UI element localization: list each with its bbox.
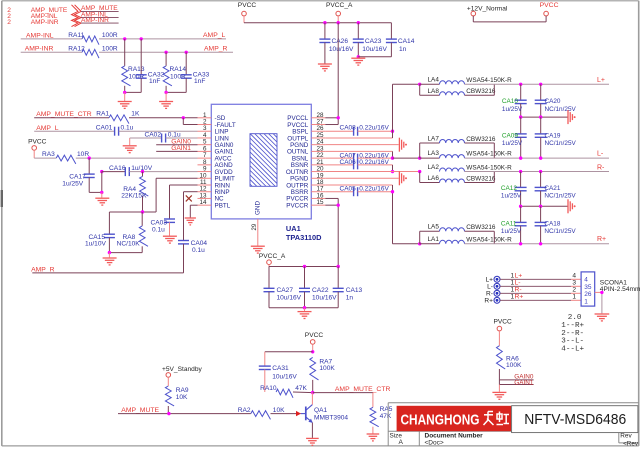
node xyxy=(539,83,542,86)
svg-text:47K: 47K xyxy=(380,413,392,420)
svg-text:GAIN1: GAIN1 xyxy=(514,379,534,386)
svg-text:1nF: 1nF xyxy=(194,78,205,85)
inductor LA3 WSA54-150K-R xyxy=(428,150,513,158)
svg-text:10u/16V: 10u/16V xyxy=(312,295,337,302)
svg-text:0.1u: 0.1u xyxy=(152,226,165,233)
svg-text:0.1u: 0.1u xyxy=(121,125,134,132)
wire PVCC rail xyxy=(244,22,391,24)
capacitor CA19 NC/1n/25V xyxy=(535,117,577,158)
wire LA5 right tie down xyxy=(465,231,495,244)
power port PVCC (top right) xyxy=(540,2,559,16)
ground (SCONA1) xyxy=(595,314,610,321)
wire PBTL pin14 to gnd xyxy=(190,205,197,217)
node xyxy=(519,170,522,173)
svg-text:WSA54-150K-R: WSA54-150K-R xyxy=(466,236,512,243)
svg-text:CA12: CA12 xyxy=(501,185,517,192)
wire L- to coils xyxy=(393,157,420,159)
svg-text:10R: 10R xyxy=(77,151,89,158)
svg-text:NC/1n/25V: NC/1n/25V xyxy=(545,106,577,113)
wire PLIMIT pin10 xyxy=(109,178,197,212)
svg-text:2: 2 xyxy=(572,287,576,294)
capacitor CA15 1u/10V xyxy=(85,212,115,253)
svg-text:4: 4 xyxy=(572,273,576,280)
ground (RA5) xyxy=(367,434,380,441)
capacitor CA01 0.1u xyxy=(96,125,134,136)
svg-text:CBW3216: CBW3216 xyxy=(466,88,496,95)
wire LA4/LA8 left tie xyxy=(420,84,440,95)
wire RINN pin11 xyxy=(170,185,198,219)
svg-text:CBW3216: CBW3216 xyxy=(466,136,496,143)
wire GAIN0 stub pin5 xyxy=(156,144,197,146)
node BSPL/OUTPL xyxy=(391,130,394,133)
node xyxy=(539,156,542,159)
wire CA16 to GVDD pin9 xyxy=(129,171,197,173)
node xyxy=(519,205,522,208)
capacitor CA31 10u/16V xyxy=(259,352,313,392)
ground (PGND pin19, sideways) xyxy=(399,171,403,185)
svg-text:4--L+: 4--L+ xyxy=(561,345,584,353)
svg-text:CA04: CA04 xyxy=(191,240,208,247)
capacitor CA23 10u/16V xyxy=(353,23,388,57)
svg-text:26: 26 xyxy=(584,291,592,298)
svg-text:NC/1n/25V: NC/1n/25V xyxy=(545,140,577,147)
ground (PBTL) xyxy=(185,218,196,225)
svg-text:UA1: UA1 xyxy=(286,224,301,233)
svg-text:10u/16V: 10u/16V xyxy=(362,46,387,53)
inductor LA6 CBW3216 xyxy=(428,175,496,183)
svg-text:LA1: LA1 xyxy=(428,236,440,243)
capacitor CA10 1u/25V xyxy=(502,84,527,117)
resistor RA2 10K xyxy=(238,407,285,419)
wires to SCONA1 with pin 1 labels xyxy=(500,273,581,301)
svg-text:10u/16V: 10u/16V xyxy=(277,295,302,302)
pinout note text xyxy=(561,314,584,353)
wire LA5/LA1 left tie xyxy=(420,231,440,244)
svg-text:1n: 1n xyxy=(399,46,407,53)
capacitor CA16 1u/10V xyxy=(102,165,153,176)
ground (CA17/CA16) xyxy=(95,192,109,205)
capacitor CA04 0.1u xyxy=(178,240,207,273)
UA1 GND text (rotated) xyxy=(255,201,262,215)
svg-text:1u/25V: 1u/25V xyxy=(502,106,523,113)
wire R filter gnd rail xyxy=(521,205,568,207)
sheet reference list: 2 AMP_MUTE / 2 AMP-INL / 2 AMP-INR xyxy=(7,7,68,26)
node R+ junction xyxy=(418,242,421,245)
wire OUTNR pin20 (R-) xyxy=(325,171,419,173)
node: CA32 tap on AMP-INL xyxy=(140,37,143,40)
connector SCONA1 body xyxy=(581,272,595,306)
node gnd junction xyxy=(100,191,103,194)
svg-text:47K: 47K xyxy=(295,385,307,392)
wire AMP-INR xyxy=(21,46,233,53)
wire CA01 to LINP pin3 xyxy=(119,130,198,132)
resistor RA4 22K/15K xyxy=(121,172,148,212)
connector outer pin numbers 4/3/2/1 xyxy=(572,273,576,301)
wire QA1 emitter to gnd xyxy=(311,423,313,438)
wire OUTPL vertical riser xyxy=(393,84,420,138)
node -SD/-FAULT tie xyxy=(182,116,185,119)
svg-text:1u/25V: 1u/25V xyxy=(62,180,84,187)
wire CA17 bottom to gnd node xyxy=(89,191,102,193)
title block Document Number cell xyxy=(425,433,484,447)
wire GVDD branch down xyxy=(101,172,103,193)
wire AMP_MUTE_CTR to RA5 xyxy=(313,393,373,408)
UA1 pin names (right) xyxy=(286,115,309,209)
node: RA13 tap on AMP-INL xyxy=(123,37,126,40)
svg-text:100K: 100K xyxy=(319,365,335,372)
svg-text:L+: L+ xyxy=(485,277,493,284)
svg-text:NFTV-MSD6486: NFTV-MSD6486 xyxy=(524,412,626,428)
power port PVCC (top) xyxy=(238,2,257,23)
capacitor CA09 1u/25V xyxy=(502,117,527,158)
svg-text:NC/10K: NC/10K xyxy=(117,241,141,248)
port AMP-INR xyxy=(81,17,119,24)
transistor QA1 MMBT3904 xyxy=(296,405,348,423)
capacitor CA33 1nF xyxy=(181,52,210,92)
svg-text:L-: L- xyxy=(515,280,521,287)
wire SCONA1 shield to gnd xyxy=(595,292,602,313)
node xyxy=(539,205,542,208)
wire to -FAULT pin2 xyxy=(183,118,197,125)
node PVCCR xyxy=(337,203,340,206)
svg-text:PVCC: PVCC xyxy=(494,319,513,326)
connector input net ties (donut pads) xyxy=(494,276,500,303)
CHANGHONG logo xyxy=(397,406,511,431)
node xyxy=(323,21,326,24)
node xyxy=(519,242,522,245)
wire LA8 right tie up xyxy=(465,84,495,95)
ground (CA26) xyxy=(318,64,332,71)
svg-text:L+: L+ xyxy=(597,77,605,84)
svg-text:A: A xyxy=(399,439,404,446)
svg-text:<Rev: <Rev xyxy=(623,440,639,447)
svg-text:AMP_L: AMP_L xyxy=(203,32,226,39)
ground (RA6) xyxy=(492,385,506,400)
svg-text:PVCC: PVCC xyxy=(305,332,324,339)
svg-text:NC/1n/25V: NC/1n/25V xyxy=(544,228,576,235)
svg-text:TPA3110D: TPA3110D xyxy=(286,233,322,242)
capacitor CA11 1u/25V xyxy=(501,206,527,244)
svg-text:PVCC: PVCC xyxy=(540,2,559,9)
node PVCCL xyxy=(337,116,340,119)
wire: RA14/CA33 bottoms joined xyxy=(166,91,186,93)
UA1 pin numbers 28-15 xyxy=(317,112,325,206)
wire L filter gnd rail xyxy=(521,116,568,118)
ground (PGND pin24, sideways) xyxy=(399,138,403,152)
node xyxy=(337,265,340,268)
node AVCC xyxy=(88,156,91,159)
UA1 pin names (left) xyxy=(215,115,236,209)
svg-text:PVCC_A: PVCC_A xyxy=(326,2,353,9)
node L+ left junction xyxy=(418,83,421,86)
svg-text:LA4: LA4 xyxy=(428,77,440,84)
ground (CA02 left) xyxy=(123,138,137,153)
svg-text:CA27: CA27 xyxy=(277,287,294,294)
svg-text:RA1: RA1 xyxy=(96,111,109,118)
wire R+ output xyxy=(465,243,610,245)
svg-text:CA02: CA02 xyxy=(145,132,162,139)
capacitor CA17 1u/25V xyxy=(62,158,94,192)
node xyxy=(519,83,522,86)
UA1 pin 29 (GND pad) xyxy=(252,223,258,230)
capacitor CA26 10u/16V xyxy=(319,23,354,64)
svg-text:100R: 100R xyxy=(102,45,118,52)
svg-text:PVCCR: PVCCR xyxy=(286,202,308,209)
ground (RA14/CA33) xyxy=(159,92,173,108)
inductor LA2 WSA54-150K-R xyxy=(428,164,513,172)
capacitor CA14 1n xyxy=(358,23,414,57)
wire R- output xyxy=(465,171,610,173)
inductor LA5 CBW3216 xyxy=(428,223,496,231)
resistor RA10 47K xyxy=(260,385,313,398)
node RA9/AMP_MUTE xyxy=(167,412,170,415)
wire AMP_MUTE xyxy=(118,413,251,415)
node L- junction xyxy=(418,156,421,159)
resistor RA1 1K xyxy=(96,111,140,124)
svg-text:3: 3 xyxy=(572,280,576,287)
title block Rev cell xyxy=(620,433,639,448)
wire RINP pin12 xyxy=(184,192,198,241)
node xyxy=(539,242,542,245)
wire L+ output xyxy=(465,83,610,85)
thermal pad hatch inside UA1 xyxy=(195,134,342,189)
capacitor CA08 0.22u/16V (BSPL) xyxy=(325,125,392,136)
svg-text:CA10: CA10 xyxy=(502,98,518,105)
wire AMP_L to CA01 xyxy=(34,130,114,132)
wire PGND pin19 xyxy=(325,177,398,179)
power port PVCC (RA6) xyxy=(494,319,513,346)
node: CA33 tap on AMP-INR xyxy=(185,51,188,54)
no-connect X on pin13 xyxy=(186,195,192,201)
svg-text:CA19: CA19 xyxy=(545,132,561,139)
svg-text:CBW3216: CBW3216 xyxy=(466,175,496,182)
svg-text:CA23: CA23 xyxy=(365,38,382,45)
wire LA7 right tie down xyxy=(465,143,495,158)
wire OUTPR pin18 riser down xyxy=(325,185,419,244)
svg-text:Rev: Rev xyxy=(620,433,632,440)
svg-text:LA8: LA8 xyxy=(428,88,440,95)
svg-text:NC/1n/25V: NC/1n/25V xyxy=(544,193,576,200)
svg-text:L-: L- xyxy=(597,150,604,157)
wire AMP_MUTE_CTR to RA1 xyxy=(34,117,109,119)
svg-text:1K: 1K xyxy=(131,111,140,118)
svg-text:R+: R+ xyxy=(484,298,493,305)
node xyxy=(519,115,522,118)
wire UA1 GND stub xyxy=(257,219,259,246)
capacitor CA12 1u/25V xyxy=(501,172,527,207)
wire LA6 right tie up xyxy=(465,172,495,183)
ground (CA15) xyxy=(103,253,117,265)
svg-text:R-: R- xyxy=(597,164,605,171)
node OUTNL/BSNL xyxy=(391,156,394,159)
wire PVCC_A rail top xyxy=(269,266,338,268)
svg-text:CBW3216: CBW3216 xyxy=(466,224,496,231)
svg-text:<Doc>: <Doc> xyxy=(425,440,444,447)
svg-text:PVCC: PVCC xyxy=(28,138,47,145)
node xyxy=(357,21,360,24)
svg-text:CA13: CA13 xyxy=(346,287,363,294)
svg-text:R+: R+ xyxy=(597,236,606,243)
node xyxy=(519,156,522,159)
svg-text:1: 1 xyxy=(584,298,588,305)
ground (RA13/CA32) xyxy=(118,92,132,108)
svg-text:35: 35 xyxy=(584,284,592,291)
node xyxy=(303,306,306,309)
svg-text:10u/16V: 10u/16V xyxy=(329,46,354,53)
svg-text:CA31: CA31 xyxy=(272,365,289,372)
svg-text:2.0: 2.0 xyxy=(568,314,582,322)
svg-text:RA14: RA14 xyxy=(170,66,187,73)
capacitor CA05 0.22u/16V (BSRR) xyxy=(325,185,392,196)
node xyxy=(303,265,306,268)
svg-text:CA08: CA08 xyxy=(340,125,357,132)
svg-text:GND: GND xyxy=(255,201,262,215)
resistor RA14 100R xyxy=(163,52,186,92)
svg-text:0.22u/16V: 0.22u/16V xyxy=(359,125,389,132)
power port PVCC (mute) xyxy=(305,332,324,352)
resistor RA9 10K xyxy=(165,386,188,414)
svg-text:AMP_MUTE: AMP_MUTE xyxy=(121,407,159,414)
svg-text:1u/25V: 1u/25V xyxy=(501,228,522,235)
capacitor CA03 0.1u xyxy=(151,219,176,236)
svg-text:0.22u/16V: 0.22u/16V xyxy=(359,185,389,192)
resistor RA5 47K xyxy=(370,406,393,434)
svg-text:1nF: 1nF xyxy=(149,78,160,85)
wire RA2 to QA1 base xyxy=(271,413,297,415)
svg-text:CA16: CA16 xyxy=(109,165,126,172)
resistor RA3 10R xyxy=(42,151,89,164)
svg-text:100K: 100K xyxy=(506,362,522,369)
svg-text:22K/15K: 22K/15K xyxy=(121,193,147,200)
wire GAIN1 stub pin6 xyxy=(156,150,197,152)
ground (UA1 pad) xyxy=(251,246,265,253)
svg-text:CHANGHONG: CHANGHONG xyxy=(401,412,480,428)
node: RA14 tap on AMP-INR xyxy=(164,51,167,54)
port AMP_MUTE xyxy=(81,5,119,12)
wire +12V_Normal to PVCC xyxy=(473,16,546,22)
svg-text:AMP-INL: AMP-INL xyxy=(26,32,54,39)
svg-text:CA18: CA18 xyxy=(544,220,560,227)
resistor RA8 NC/10K xyxy=(117,212,148,253)
svg-text:L+: L+ xyxy=(515,273,523,280)
svg-text:AMP_R: AMP_R xyxy=(204,45,228,52)
wire PVCC_A feed down to PVCCL pins xyxy=(337,23,339,118)
node R- junction xyxy=(418,170,421,173)
svg-text:RA13: RA13 xyxy=(128,66,145,73)
svg-text:PVCC: PVCC xyxy=(238,2,257,9)
wire AMP-INL xyxy=(21,32,226,39)
capacitor CA32 1nF xyxy=(136,39,165,93)
resistor RA11 100R xyxy=(68,32,118,45)
svg-text:MMBT3904: MMBT3904 xyxy=(314,415,348,422)
wire CA02 to LINN pin4 xyxy=(166,137,198,139)
power port PVCC_A (bottom) xyxy=(259,253,286,267)
node xyxy=(600,291,603,294)
svg-text:4: 4 xyxy=(584,277,588,284)
wire L- output xyxy=(465,157,610,159)
svg-text:RA2: RA2 xyxy=(238,407,251,414)
node QA1 collector / AMP_MUTE_CTR xyxy=(311,391,314,394)
capacitor CA27 10u/16V xyxy=(264,267,302,308)
ground (PVCC_A caps) xyxy=(298,308,312,319)
wire RA1 to -SD pin1 xyxy=(129,117,198,119)
ground (L filter, sideways) xyxy=(568,110,572,124)
inductor LA1 WSA54-150K-R xyxy=(428,236,513,244)
svg-text:10K: 10K xyxy=(176,394,188,401)
capacitor CA07 0.22u/16V (BSNL) xyxy=(325,152,392,162)
capacitor CA02 0.1u xyxy=(145,132,181,143)
port AMP-INL xyxy=(81,11,119,18)
wire QA1 collector xyxy=(311,393,313,405)
svg-text:CA22: CA22 xyxy=(312,287,329,294)
svg-text:QA1: QA1 xyxy=(314,407,328,414)
svg-text:WSA54-150K-R: WSA54-150K-R xyxy=(466,151,512,158)
svg-text:CA21: CA21 xyxy=(544,185,560,192)
svg-text:WSA54-150K-R: WSA54-150K-R xyxy=(466,164,512,171)
resistor RA6 100K xyxy=(497,346,523,380)
svg-text:WSA54-150K-R: WSA54-150K-R xyxy=(466,77,512,84)
svg-text:PVCC_A: PVCC_A xyxy=(259,253,286,260)
node xyxy=(539,170,542,173)
svg-text:R+: R+ xyxy=(515,294,524,301)
node xyxy=(337,21,340,24)
wire CA15/RA8 bottoms xyxy=(109,252,142,254)
op-amp / class-D amplifier IC UA1 TPA3110D body xyxy=(211,104,311,219)
ground (R filter, sideways) xyxy=(568,199,572,213)
inductor LA4 WSA54-150K-R xyxy=(428,77,513,85)
capacitor CA18 NC/1n/25V xyxy=(535,206,577,244)
svg-text:LA5: LA5 xyxy=(428,223,440,230)
svg-text:AMP-INR: AMP-INR xyxy=(25,46,54,53)
wire PVCCL pins 28/27 tie xyxy=(325,118,338,125)
wire AMP_R to CA04 xyxy=(32,272,183,274)
svg-text:RA10: RA10 xyxy=(260,385,277,392)
resistor RA13 100R xyxy=(122,39,145,93)
wire LA2/LA6 left tie xyxy=(420,172,440,183)
inductor LA7 CBW3216 xyxy=(428,135,496,143)
svg-text:LA2: LA2 xyxy=(428,164,440,171)
power port PVCC_A (top) xyxy=(326,2,353,23)
svg-text:1n: 1n xyxy=(346,295,354,302)
svg-text:CA01: CA01 xyxy=(96,125,113,132)
svg-text:CA11: CA11 xyxy=(501,220,517,227)
node xyxy=(539,115,542,118)
inductor LA8 CBW3216 xyxy=(428,88,496,96)
resistor RA7 100K xyxy=(310,357,336,392)
svg-text:R-: R- xyxy=(515,287,522,294)
power port PVCC (left) xyxy=(28,138,47,158)
node xyxy=(123,91,126,94)
svg-text:10K: 10K xyxy=(273,407,285,414)
title block Size cell xyxy=(390,433,404,447)
wire PVCC_A rail bottom xyxy=(269,307,338,309)
svg-text:CA09: CA09 xyxy=(502,132,518,139)
svg-text:AMP-INR: AMP-INR xyxy=(31,19,59,26)
svg-text:LA7: LA7 xyxy=(428,135,440,142)
svg-text:LA3: LA3 xyxy=(428,150,440,157)
svg-text:PBTL: PBTL xyxy=(215,202,231,209)
svg-text:CA03: CA03 xyxy=(151,219,168,226)
capacitor CA21 NC/1n/25V xyxy=(535,172,577,207)
svg-text:2: 2 xyxy=(7,19,11,26)
wire: RA13/CA32 bottoms joined xyxy=(125,91,142,93)
svg-text:AMP_MUTE_CTR: AMP_MUTE_CTR xyxy=(36,111,92,118)
svg-text:RA5: RA5 xyxy=(380,406,393,413)
capacitor CA06 0.22u/16V (BSNR) xyxy=(325,159,392,171)
svg-text:CA05: CA05 xyxy=(340,185,357,192)
svg-text:CA20: CA20 xyxy=(545,98,561,105)
svg-text:0.22u/16V: 0.22u/16V xyxy=(359,159,389,166)
